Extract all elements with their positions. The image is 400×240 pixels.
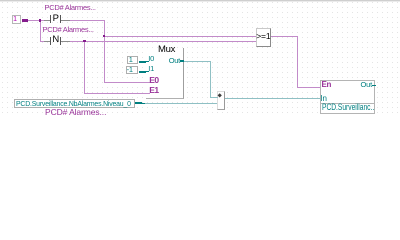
contact N letter xyxy=(52,35,59,45)
pin label Out (Mux) xyxy=(169,57,180,65)
wire: row103 to link box xyxy=(143,103,217,104)
pin label En xyxy=(322,81,332,89)
pin tick: Mux Out xyxy=(180,60,184,61)
wire: row87 into En xyxy=(297,87,320,88)
contact P gray lead right xyxy=(61,20,70,21)
label PCD# Alarmes (P contact) xyxy=(45,4,96,12)
text: constant 1 (I0) xyxy=(129,56,133,64)
contact P letter xyxy=(53,14,59,24)
wire: row97 into link diamond xyxy=(210,97,218,98)
node: junction at (84.5,41) xyxy=(83,40,86,43)
symbol box PCD.Surveillance.NbAlarmes.Niveau_0 xyxy=(14,99,135,108)
stub: Niveau_0 box connector xyxy=(135,102,142,105)
constant source box 1 xyxy=(12,15,22,24)
wire: link box to In row98 xyxy=(225,98,320,99)
title Mux xyxy=(158,45,175,55)
grid background dots xyxy=(0,0,400,117)
node: link diamond xyxy=(217,93,222,98)
wire: row82 to Mux E0 xyxy=(104,82,150,83)
wire: vertical x297 down to En row xyxy=(297,36,298,87)
text: constant -1 (I1) xyxy=(127,66,133,74)
wire: N row41 to or-gate input 2 xyxy=(70,41,256,42)
wire: P contact to vertical x104 xyxy=(70,20,105,21)
pin label In xyxy=(321,95,327,103)
constant box -1 (mux I1) xyxy=(126,66,138,74)
wire: Mux Out row61 xyxy=(184,61,211,62)
contact N bar right xyxy=(60,37,61,45)
pin label E1 xyxy=(149,86,158,94)
contact N bar left xyxy=(50,37,51,45)
text: symbol name Niveau_0 xyxy=(16,100,131,108)
FBox PCD.Surveillanc xyxy=(320,80,375,115)
label PCD# Alarmes (bottom) xyxy=(45,108,106,116)
text: constant 1 source xyxy=(13,16,17,24)
stub: const -1 to I1 xyxy=(139,71,146,73)
top window border band xyxy=(0,0,400,1)
text: or-gate >=1 xyxy=(256,32,270,41)
pin label I1 xyxy=(148,65,154,73)
wire: or-gate output row36 xyxy=(271,36,298,37)
contact P bar right xyxy=(60,15,61,23)
pin label Out (FBox) xyxy=(355,81,372,89)
contact N gray lead left xyxy=(44,41,50,42)
label PCD# Alarmes (N contact) xyxy=(43,26,94,34)
or-gate box >=1 xyxy=(256,28,271,48)
wire: N row41 left part xyxy=(40,41,45,42)
wire: source to P contact row20 xyxy=(28,20,45,21)
FBox name divider xyxy=(320,103,375,104)
connector link box xyxy=(217,91,226,111)
pin tick Out (FBox) xyxy=(372,85,376,86)
contact P gray lead left xyxy=(44,20,50,21)
node: junction at (104,36) xyxy=(103,35,106,38)
wire: row36 to or-gate input 1 xyxy=(104,36,256,37)
function block Mux body xyxy=(146,48,184,99)
constant box 1 (mux I0) xyxy=(127,56,138,64)
wire: vertical branch x40 down to N row xyxy=(40,20,41,41)
text: FBox name PCD.Surveillanc xyxy=(322,103,374,113)
stub: const 1 to I0 xyxy=(139,61,146,63)
wire: vertical x84 (N branch down to E1) xyxy=(84,41,85,93)
pin label E0 xyxy=(149,76,158,84)
wire: row93 to Mux E1 xyxy=(84,93,150,94)
wire: vertical x104 (P branch down) xyxy=(104,20,105,82)
wire: vertical x210 xyxy=(210,61,211,97)
contact P bar left xyxy=(50,15,51,23)
node: branch junction on row20 xyxy=(39,19,42,22)
wire: source stub xyxy=(22,19,28,22)
pin label I0 xyxy=(148,55,154,63)
contact N gray lead right xyxy=(61,41,70,42)
